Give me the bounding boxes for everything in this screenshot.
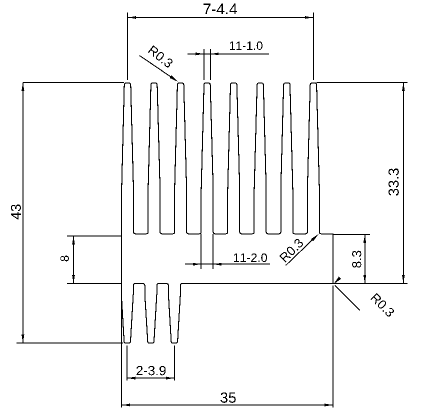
- dimension 33.3 (fin height): [317, 81, 408, 83]
- leader R0.3 (fin tip radius): [140, 56, 177, 81]
- dimension 8 (base height left): [67, 235, 122, 237]
- dimension 11-2.0 (fin root width): [200, 234, 202, 269]
- dimension 7-4.4 (fin pitch overall): [127, 13, 129, 81]
- dimension 11-1.0 (fin tip width): [203, 49, 205, 80]
- leader R0.3 (base corner radius): [335, 286, 360, 311]
- dimension 43 (overall height): [23, 81, 124, 83]
- heatsink profile outline: [121, 83, 333, 343]
- dimension 8.3 (shelf height): [333, 233, 370, 235]
- dimension 35 (overall width): [121, 285, 123, 408]
- dimension 2-3.9 (lower fin pitch): [126, 346, 128, 381]
- leader R0.3 (shelf corner radius): [286, 235, 318, 265]
